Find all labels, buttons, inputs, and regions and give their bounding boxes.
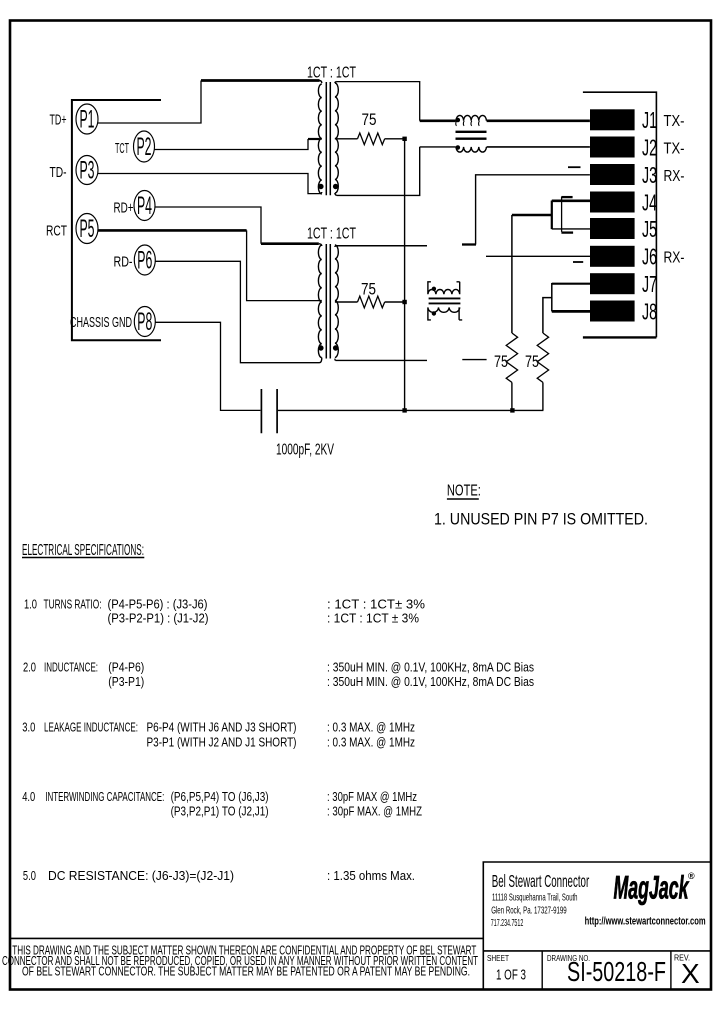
svg-text:3.0: 3.0 <box>22 720 35 735</box>
svg-text:75: 75 <box>494 352 508 371</box>
svg-text:Glen Rock, Pa. 17327-9199: Glen Rock, Pa. 17327-9199 <box>491 905 567 917</box>
svg-text:: 350uH MIN. @ 0.1V, 100KHz, 8: : 350uH MIN. @ 0.1V, 100KHz, 8mA DC Bias <box>327 660 534 675</box>
choke L1 polarity dots <box>456 118 461 123</box>
svg-text:RCT: RCT <box>46 223 67 240</box>
svg-text:P3: P3 <box>80 157 95 185</box>
resistor R4 75 ohm vertical <box>537 333 548 382</box>
wire choke L1 to J1 <box>487 120 590 123</box>
resistor R1 75 ohm zigzag <box>358 133 385 145</box>
svg-text:J5: J5 <box>642 216 657 242</box>
wire T1 secondary top to choke L1 <box>337 82 420 121</box>
wire to J8 <box>552 310 590 313</box>
connector body outline (J-side) <box>583 92 657 337</box>
choke L1 top winding <box>456 115 486 120</box>
T2 primary terminal stubs <box>318 244 322 363</box>
svg-text:1. UNUSED PIN P7 IS OMITTED.: 1. UNUSED PIN P7 IS OMITTED. <box>434 510 648 529</box>
pin P4 <box>134 191 155 221</box>
vertical bus from R1 to capacitor net <box>404 139 406 411</box>
transformer T1 core <box>326 82 330 195</box>
wire T2 secondary top segment <box>336 245 427 247</box>
transformer T2 primary winding <box>318 245 321 357</box>
svg-text:®: ® <box>688 871 695 881</box>
svg-text:J7: J7 <box>642 271 657 297</box>
svg-text:CHASSIS GND: CHASSIS GND <box>70 314 132 331</box>
svg-text:: 0.3 MAX. @ 1MHz: : 0.3 MAX. @ 1MHz <box>327 720 415 735</box>
svg-text:RD+: RD+ <box>114 200 134 217</box>
svg-text:1000pF, 2KV: 1000pF, 2KV <box>276 442 334 459</box>
junction R2/bus <box>402 300 406 304</box>
wire P3 to T1 primary bottom <box>98 174 320 194</box>
wire P4 to T2 primary top <box>155 207 261 244</box>
svg-text:75: 75 <box>362 110 377 129</box>
svg-text:5.0: 5.0 <box>23 868 36 883</box>
J8 contact pad <box>590 301 635 322</box>
pin P2 <box>134 131 155 162</box>
svg-text:TD+: TD+ <box>50 112 67 129</box>
pin P1 <box>76 104 98 134</box>
svg-text:LEAKAGE INDUCTANCE:: LEAKAGE INDUCTANCE: <box>44 720 138 735</box>
J7 contact pad <box>590 273 635 294</box>
transformer T2 secondary winding <box>335 245 338 357</box>
resistor R2 75 ohm leads <box>337 301 405 303</box>
svg-text:TX-: TX- <box>664 140 685 157</box>
wire P6 to T2 primary bottom <box>155 261 319 362</box>
choke L2 polarity dots <box>432 287 436 291</box>
note heading underline <box>447 498 479 500</box>
T2 secondary polarity dot <box>333 345 338 350</box>
svg-text:: 30pF MAX @ 1MHz: : 30pF MAX @ 1MHz <box>327 789 417 804</box>
svg-text:1 OF 3: 1 OF 3 <box>496 967 526 984</box>
pin P8 <box>134 307 155 337</box>
svg-text:J1: J1 <box>642 107 657 133</box>
svg-text:TCT: TCT <box>115 140 129 157</box>
wire P8 to capacitor C1 <box>155 322 260 410</box>
svg-text:http://www.stewartconnector.co: http://www.stewartconnector.com <box>585 916 706 928</box>
svg-text:OF BEL STEWART CONNECTOR. THE: OF BEL STEWART CONNECTOR. THE SUBJECT MA… <box>22 965 470 979</box>
transformer T1 secondary winding <box>335 83 338 193</box>
wire J4/J5 tie bracket <box>551 201 553 230</box>
svg-text:: 1CT : 1CT± 3%: : 1CT : 1CT± 3% <box>327 597 425 612</box>
T1 secondary polarity dot <box>333 184 338 189</box>
choke L2 bottom winding <box>428 307 462 320</box>
J5 contact pad <box>590 218 635 239</box>
transformer T1 primary winding <box>318 84 321 194</box>
svg-text:P6: P6 <box>137 247 152 275</box>
svg-text:DC RESISTANCE: (J6-J3)=(J2-J1): DC RESISTANCE: (J6-J3)=(J2-J1) <box>48 868 234 883</box>
jumper tick top <box>561 196 572 198</box>
svg-text:J4: J4 <box>642 189 657 215</box>
wire T2 secondary bottom segment <box>335 359 427 361</box>
wire P1 to T1 primary top <box>98 81 201 124</box>
svg-text:TX-: TX- <box>664 113 685 130</box>
choke L1 core <box>456 132 487 139</box>
svg-text:INTERWINDING CAPACITANCE:: INTERWINDING CAPACITANCE: <box>45 789 164 804</box>
svg-text:(P6,P5,P4) TO (J6,J3): (P6,P5,P4) TO (J6,J3) <box>171 789 269 804</box>
resistor R3 75 ohm vertical <box>506 333 517 382</box>
choke L1 bottom winding <box>456 147 486 152</box>
wire P2 to T1 primary center tap <box>155 139 309 150</box>
svg-text:11118 Susquehanna Trail, South: 11118 Susquehanna Trail, South <box>492 891 578 903</box>
svg-text:MagJack: MagJack <box>614 870 690 906</box>
svg-text:J8: J8 <box>642 298 657 324</box>
svg-text:(P3-P2-P1) : (J1-J2): (P3-P2-P1) : (J1-J2) <box>108 611 209 626</box>
svg-text:RX-: RX- <box>664 250 685 267</box>
disclaimer box top line <box>10 937 483 939</box>
svg-text:1CT : 1CT: 1CT : 1CT <box>307 65 356 82</box>
choke L2 top winding <box>428 282 460 295</box>
svg-text:P4: P4 <box>137 192 152 220</box>
svg-text:RD-: RD- <box>114 254 133 271</box>
svg-text:(P3-P1): (P3-P1) <box>108 674 144 689</box>
junction bus/cap net <box>402 408 406 412</box>
svg-text:NOTE:: NOTE: <box>447 483 481 500</box>
wire P5 to T2 primary center tap <box>98 229 247 232</box>
svg-text:TURNS RATIO:: TURNS RATIO: <box>44 597 102 612</box>
svg-text:: 1.35 ohms Max.: : 1.35 ohms Max. <box>327 868 415 883</box>
TEXTS <box>46 112 134 332</box>
svg-text:1CT : 1CT: 1CT : 1CT <box>307 226 356 243</box>
svg-text:P5: P5 <box>80 215 95 243</box>
T2 secondary terminal stubs <box>335 246 337 361</box>
svg-text:J6: J6 <box>642 244 657 270</box>
choke L2 core <box>429 298 461 303</box>
wire choke L1 to J2 <box>487 146 590 148</box>
resistor R1 75 ohm leads <box>337 138 405 140</box>
T1 primary terminal stubs <box>320 81 322 194</box>
J3 contact pad <box>590 164 635 185</box>
polarity dash below J6 wire <box>573 261 583 263</box>
svg-text:(P4-P5-P6) : (J3-J6): (P4-P5-P6) : (J3-J6) <box>108 597 208 612</box>
junction R3/cap net <box>510 408 514 412</box>
svg-text:J3: J3 <box>642 162 657 188</box>
jumper bar inner vertical <box>561 197 563 232</box>
svg-text:75: 75 <box>525 352 539 371</box>
J6 contact pad <box>590 246 635 267</box>
svg-text:SI-50218-F: SI-50218-F <box>567 956 666 987</box>
svg-text:P8: P8 <box>137 308 152 336</box>
svg-text:(P3,P2,P1) TO (J2,J1): (P3,P2,P1) TO (J2,J1) <box>171 804 269 819</box>
connector body outline (P-side) <box>72 100 161 340</box>
svg-text:SHEET: SHEET <box>487 954 509 963</box>
svg-text:P1: P1 <box>80 106 95 134</box>
J2 contact pad <box>590 137 635 158</box>
svg-text:4.0: 4.0 <box>22 789 35 804</box>
svg-text:INDUCTANCE:: INDUCTANCE: <box>44 660 98 675</box>
svg-text:TD-: TD- <box>50 164 67 181</box>
svg-text:: 1CT : 1CT ± 3%: : 1CT : 1CT ± 3% <box>327 611 419 626</box>
capacitor C1 plates <box>261 389 277 433</box>
T1 secondary terminal stubs <box>335 82 337 196</box>
wire T1 secondary bottom to choke L1 <box>337 147 456 196</box>
junction R1/bus <box>402 137 406 141</box>
pin P5 <box>76 214 98 244</box>
wire J6 net <box>486 255 590 257</box>
wire capacitor net (bottom bus) <box>278 409 544 411</box>
svg-text:ELECTRICAL SPECIFICATIONS:: ELECTRICAL SPECIFICATIONS: <box>22 542 144 559</box>
svg-text:717.234.7512: 717.234.7512 <box>491 917 524 929</box>
svg-text:X: X <box>681 958 700 989</box>
svg-text:: 350uH MIN. @ 0.1V, 100KHz, 8: : 350uH MIN. @ 0.1V, 100KHz, 8mA DC Bias <box>327 674 534 689</box>
wire J3 net tail <box>462 243 476 245</box>
pin P6 <box>134 245 155 275</box>
wire J4/J5 tie to termination <box>512 214 552 217</box>
wire to J4 <box>552 200 590 203</box>
resistor R2 75 ohm zigzag <box>358 296 385 308</box>
pin P3 <box>76 156 98 185</box>
svg-text:: 30pF MAX. @ 1MHZ: : 30pF MAX. @ 1MHZ <box>327 804 422 819</box>
wire to J5 <box>552 228 590 230</box>
jumper tick bottom <box>561 231 573 233</box>
svg-text:(P4-P6): (P4-P6) <box>108 660 144 675</box>
heading underline <box>22 557 144 559</box>
svg-text:P2: P2 <box>137 133 152 161</box>
wire J3 net <box>476 175 590 245</box>
svg-text:P3-P1 (WITH J2 AND J1 SHORT): P3-P1 (WITH J2 AND J1 SHORT) <box>147 735 297 750</box>
svg-text:: 0.3 MAX. @ 1MHz: : 0.3 MAX. @ 1MHz <box>327 735 415 750</box>
svg-text:2.0: 2.0 <box>23 660 36 675</box>
polarity dash above J3 wire <box>568 166 581 168</box>
T2 primary polarity dot <box>318 345 323 350</box>
title block outline <box>483 862 711 990</box>
transformer T2 core <box>326 244 330 359</box>
J4 contact pad <box>590 192 635 213</box>
svg-text:J2: J2 <box>642 134 657 160</box>
J1 contact pad <box>590 109 635 130</box>
svg-text:Bel Stewart Connector: Bel Stewart Connector <box>492 871 590 891</box>
svg-text:1.0: 1.0 <box>24 597 37 612</box>
wire J7/J8 tie to R4 <box>543 284 590 333</box>
svg-text:RX-: RX- <box>664 168 685 185</box>
svg-text:75: 75 <box>361 280 376 299</box>
wire segment below choke L2 <box>462 359 486 361</box>
T1 primary polarity dot <box>318 184 323 189</box>
svg-text:P6-P4 (WITH J6 AND J3 SHORT): P6-P4 (WITH J6 AND J3 SHORT) <box>147 720 297 735</box>
